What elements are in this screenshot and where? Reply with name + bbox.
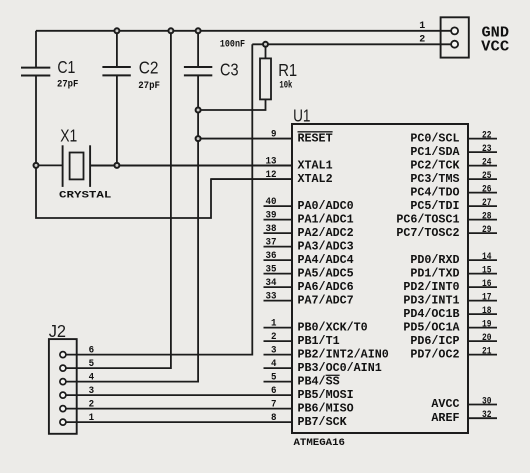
svg-text:18: 18 (482, 305, 492, 317)
wire U1 pin 22 stub (468, 138, 497, 140)
junction node 6 (196, 136, 201, 141)
svg-text:XTAL2: XTAL2 (298, 172, 333, 186)
junction node 8 (114, 163, 119, 168)
svg-text:C1: C1 (57, 57, 75, 77)
op IC U1 box (292, 124, 468, 433)
svg-text:22: 22 (482, 130, 492, 142)
svg-text:4: 4 (271, 358, 277, 370)
junction node 1 (114, 28, 119, 33)
svg-text:PA0/ADC0: PA0/ADC0 (298, 199, 354, 213)
svg-text:30: 30 (482, 396, 492, 408)
SS overline (326, 374, 340, 376)
svg-text:PC1/SDA: PC1/SDA (410, 145, 460, 159)
wire U1 pin 17 stub (468, 300, 497, 302)
wire U1 pin 2 stub (264, 340, 293, 342)
svg-text:17: 17 (482, 292, 492, 304)
svg-text:33: 33 (266, 291, 277, 303)
svg-text:PA6/ADC6: PA6/ADC6 (298, 280, 354, 294)
wire R1 bottom to RESET net (198, 99, 265, 110)
wire U1 pin 27 stub (468, 205, 497, 207)
svg-text:AVCC: AVCC (431, 397, 459, 411)
junction node 7 (34, 163, 39, 168)
svg-text:6: 6 (89, 345, 95, 357)
svg-text:2: 2 (271, 331, 277, 343)
wire VCC vertical to J2 pin 6 (66, 44, 252, 354)
svg-text:PD6/ICP: PD6/ICP (410, 334, 459, 348)
svg-text:PB1/T1: PB1/T1 (298, 334, 340, 348)
connector J2 pin 5 circle (60, 365, 66, 371)
svg-text:1: 1 (271, 318, 277, 330)
svg-text:PA5/ADC5: PA5/ADC5 (298, 266, 354, 280)
wire crystal left (36, 164, 63, 166)
wire U1 pin 15 stub (468, 273, 497, 275)
svg-text:9: 9 (271, 129, 277, 141)
svg-text:15: 15 (482, 265, 492, 277)
wire U1 pin 8 stub (66, 421, 292, 423)
wire U1 pin 21 stub (468, 354, 497, 356)
connector J2 pin 6 circle (60, 352, 66, 358)
resistor R1 (260, 58, 271, 99)
connector J2 box (49, 339, 77, 434)
wire U1 pin 23 stub (468, 151, 497, 153)
svg-text:C3: C3 (220, 59, 239, 79)
svg-text:X1: X1 (60, 125, 77, 145)
svg-text:PB4/SS: PB4/SS (298, 374, 340, 388)
wire U1 pin 7 stub (66, 408, 292, 410)
wire XTAL1 from crystal right to U1 (90, 164, 292, 166)
svg-text:12: 12 (266, 169, 277, 181)
svg-text:19: 19 (482, 319, 492, 331)
wire U1 pin 13 stub (90, 165, 292, 167)
svg-text:5: 5 (89, 358, 95, 370)
wire U1 pin 29 stub (468, 232, 497, 234)
svg-text:13: 13 (266, 156, 277, 168)
svg-text:PC6/TOSC1: PC6/TOSC1 (396, 212, 459, 226)
svg-text:29: 29 (482, 224, 492, 236)
wire U1 pin 9 stub (198, 138, 292, 140)
svg-text:28: 28 (482, 211, 492, 223)
svg-text:21: 21 (482, 346, 492, 358)
wire U1 pin 26 stub (468, 192, 497, 194)
svg-text:PB2/INT2/AIN0: PB2/INT2/AIN0 (298, 347, 389, 361)
junction node 2 (168, 28, 173, 33)
svg-text:PD4/OC1B: PD4/OC1B (403, 307, 459, 321)
svg-text:27pF: 27pF (57, 80, 78, 91)
svg-text:38: 38 (266, 223, 277, 235)
svg-text:PB0/XCK/T0: PB0/XCK/T0 (298, 320, 368, 334)
wire GND top rail (36, 30, 451, 32)
svg-text:8: 8 (271, 412, 277, 424)
wire C1 top drop (35, 31, 37, 68)
svg-text:PA1/ADC1: PA1/ADC1 (298, 212, 354, 226)
svg-text:6: 6 (271, 385, 277, 397)
svg-text:PC4/TDO: PC4/TDO (410, 185, 459, 199)
svg-text:PC3/TMS: PC3/TMS (410, 172, 459, 186)
svg-text:PA2/ADC2: PA2/ADC2 (298, 226, 354, 240)
svg-text:AREF: AREF (431, 411, 459, 425)
capacitor C3 (184, 66, 212, 68)
svg-text:100nF: 100nF (220, 40, 245, 51)
wire U1 pin 1 stub (264, 327, 293, 329)
wire U1 pin 19 stub (468, 327, 497, 329)
svg-text:34: 34 (266, 277, 277, 289)
svg-text:PD5/OC1A: PD5/OC1A (403, 320, 460, 334)
wire U1 pin 34 stub (264, 286, 293, 288)
svg-text:23: 23 (482, 143, 492, 155)
svg-text:35: 35 (266, 264, 277, 276)
wire U1 pin 39 stub (264, 219, 293, 221)
svg-text:40: 40 (266, 196, 277, 208)
wire U1 pin 28 stub (468, 219, 497, 221)
svg-text:U1: U1 (293, 106, 310, 126)
svg-text:PB7/SCK: PB7/SCK (298, 415, 348, 429)
svg-text:PB5/MOSI: PB5/MOSI (298, 388, 354, 402)
svg-text:1: 1 (419, 20, 425, 32)
wire U1 pin 12 stub (211, 178, 292, 180)
svg-text:14: 14 (482, 251, 492, 263)
svg-text:3: 3 (271, 345, 277, 357)
svg-text:PC7/TOSC2: PC7/TOSC2 (396, 226, 459, 240)
wire U1 pin 30 stub (468, 404, 497, 406)
svg-text:7: 7 (271, 399, 277, 411)
wire U1 pin 24 stub (468, 165, 497, 167)
connector J1 box (GND/VCC header) (441, 17, 469, 57)
wire R1 top stub (265, 44, 267, 58)
svg-text:16: 16 (482, 278, 492, 290)
wire C2 bottom drop (116, 75, 118, 165)
svg-text:32: 32 (482, 409, 492, 421)
svg-text:39: 39 (266, 210, 277, 222)
svg-text:CRYSTAL: CRYSTAL (59, 191, 111, 202)
wire RESET net C3 bottom down to J2 pin 4 (66, 75, 198, 381)
svg-text:27: 27 (482, 197, 492, 209)
svg-text:24: 24 (482, 157, 492, 169)
svg-text:RESET: RESET (298, 131, 333, 145)
connector J1 pin 1 circle (451, 27, 458, 34)
svg-text:C2: C2 (139, 58, 159, 78)
wire U1 pin 38 stub (264, 232, 293, 234)
wire C1 bottom to crystal and XTAL2 (36, 76, 292, 219)
svg-text:VCC: VCC (481, 39, 509, 56)
wire U1 pin 6 stub (66, 394, 292, 396)
RESET overline (298, 131, 333, 133)
connector J2 pin 3 circle (60, 392, 66, 398)
wire U1 pin 36 stub (264, 259, 293, 261)
junction node 3 (196, 28, 201, 33)
wire U1 pin 3 stub (264, 354, 293, 356)
svg-text:R1: R1 (278, 60, 297, 80)
wire RESET to U1 pin 9 (198, 138, 292, 140)
wire U1 pin 16 stub (468, 286, 497, 288)
wire U1 pin 25 stub (468, 178, 497, 180)
svg-text:PD0/RXD: PD0/RXD (410, 253, 459, 267)
svg-text:2: 2 (419, 33, 425, 45)
svg-text:PC2/TCK: PC2/TCK (410, 158, 460, 172)
wire U1 pin 35 stub (264, 273, 293, 275)
svg-text:PA3/ADC3: PA3/ADC3 (298, 239, 354, 253)
wire U1 pin 40 stub (264, 205, 293, 207)
svg-text:PC0/SCL: PC0/SCL (410, 131, 459, 145)
connector J2 pin 2 circle (60, 406, 66, 412)
svg-text:10k: 10k (279, 80, 292, 92)
svg-text:4: 4 (89, 372, 95, 384)
svg-text:26: 26 (482, 184, 492, 196)
wire U1 pin 5 stub (264, 381, 293, 383)
svg-text:20: 20 (482, 332, 492, 344)
wire C2 top drop (116, 31, 118, 67)
svg-text:PB6/MISO: PB6/MISO (298, 401, 354, 415)
svg-text:XTAL1: XTAL1 (298, 158, 333, 172)
connector J1 pin 2 circle (451, 41, 458, 48)
wire U1 pin 4 stub (264, 367, 293, 369)
svg-text:PD3/INT1: PD3/INT1 (403, 293, 459, 307)
svg-text:PD2/INT0: PD2/INT0 (403, 280, 459, 294)
svg-text:PC5/TDI: PC5/TDI (410, 199, 459, 213)
svg-text:5: 5 (271, 372, 277, 384)
wire GND vertical to J2 pin 5 (66, 31, 171, 368)
wire U1 pin 32 stub (468, 417, 497, 419)
svg-text:PB3/OC0/AIN1: PB3/OC0/AIN1 (298, 361, 382, 375)
junction node 5 (196, 108, 201, 113)
svg-text:PD7/OC2: PD7/OC2 (410, 347, 459, 361)
wire C3 top drop (197, 31, 199, 67)
wire U1 pin 37 stub (264, 246, 293, 248)
crystal X1 (62, 145, 64, 187)
capacitor C1 (21, 67, 50, 69)
capacitor C2 (102, 66, 130, 68)
svg-text:J2: J2 (49, 321, 66, 341)
svg-text:25: 25 (482, 170, 492, 182)
svg-text:37: 37 (266, 237, 277, 249)
svg-text:36: 36 (266, 250, 277, 262)
svg-text:PA4/ADC4: PA4/ADC4 (298, 253, 354, 267)
wire U1 pin 33 stub (264, 300, 293, 302)
connector J2 pin 1 circle (60, 419, 66, 425)
svg-text:PD1/TXD: PD1/TXD (410, 266, 459, 280)
wire U1 pin 20 stub (468, 340, 497, 342)
wire VCC horizontal (252, 43, 451, 45)
svg-text:27pF: 27pF (138, 81, 160, 92)
wire U1 pin 18 stub (468, 313, 497, 315)
svg-text:PA7/ADC7: PA7/ADC7 (298, 293, 354, 307)
wire U1 pin 14 stub (468, 259, 497, 261)
svg-text:ATMEGA16: ATMEGA16 (294, 438, 346, 449)
junction node 4 (263, 42, 268, 47)
connector J2 pin 4 circle (60, 379, 66, 385)
